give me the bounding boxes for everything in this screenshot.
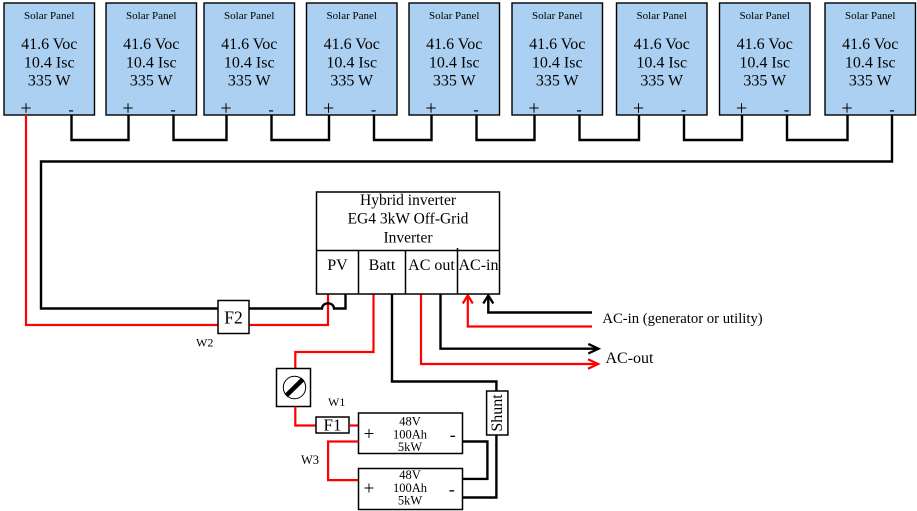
- wire: PV8 minus to PV9 plus: [787, 115, 848, 140]
- svg-text:41.6 Voc: 41.6 Voc: [324, 36, 380, 53]
- svg-text:Solar Panel: Solar Panel: [126, 10, 176, 22]
- svg-text:+: +: [364, 424, 375, 445]
- svg-text:335 W: 335 W: [640, 73, 684, 90]
- svg-text:335 W: 335 W: [28, 73, 72, 90]
- hybrid inverter U1: [317, 192, 500, 294]
- svg-text:+: +: [364, 479, 375, 500]
- solar panel PV1: [4, 3, 95, 120]
- wire: AC out neutral (red) with arrow: [421, 294, 597, 364]
- svg-text:EG4 3kW Off-Grid: EG4 3kW Off-Grid: [348, 211, 469, 228]
- svg-text:Solar Panel: Solar Panel: [327, 10, 377, 22]
- wire: breaker to fuse F1 (red): [295, 407, 316, 426]
- solar panel PV9: [825, 3, 916, 120]
- solar panel PV8: [720, 3, 811, 120]
- svg-text:-: -: [450, 424, 456, 444]
- svg-text:AC-in: AC-in: [459, 257, 499, 274]
- wire: fuse F1 to battery 1 (red): [349, 424, 359, 426]
- svg-text:335 W: 335 W: [536, 73, 580, 90]
- fuse F2: [218, 301, 249, 334]
- shunt: [487, 391, 508, 435]
- wire: PV4 minus to PV5 plus: [374, 115, 432, 140]
- wire: AC out line (black) with arrow: [441, 294, 598, 349]
- svg-text:335 W: 335 W: [330, 73, 374, 90]
- wire: Batt negative (black) inverter to shunt: [392, 294, 496, 391]
- svg-text:Batt: Batt: [369, 257, 396, 274]
- svg-text:Solar Panel: Solar Panel: [532, 10, 582, 22]
- svg-text:10.4 Isc: 10.4 Isc: [24, 54, 75, 71]
- svg-text:Inverter: Inverter: [383, 230, 433, 247]
- solar panel PV4: [307, 3, 398, 120]
- svg-text:F2: F2: [224, 308, 242, 328]
- solar panel PV6: [512, 3, 603, 120]
- wire: shunt to battery 2 - (black): [463, 435, 497, 498]
- svg-text:W3: W3: [301, 453, 319, 467]
- svg-text:Solar Panel: Solar Panel: [637, 10, 687, 22]
- svg-text:335 W: 335 W: [433, 73, 477, 90]
- wire: PV7 minus to PV8 plus: [684, 115, 742, 140]
- svg-text:Solar Panel: Solar Panel: [224, 10, 274, 22]
- battery BT2: [359, 468, 463, 510]
- svg-text:10.4 Isc: 10.4 Isc: [126, 54, 177, 71]
- svg-text:335 W: 335 W: [849, 73, 893, 90]
- svg-text:F1: F1: [324, 416, 342, 435]
- svg-text:PV: PV: [327, 257, 348, 274]
- svg-text:41.6 Voc: 41.6 Voc: [634, 36, 690, 53]
- solar panel PV7: [617, 3, 708, 120]
- svg-text:AC-in (generator or utility): AC-in (generator or utility): [602, 311, 762, 327]
- wire: PV string positive (red) from PV1 + to inverter PV input: [26, 115, 328, 325]
- svg-text:Shunt: Shunt: [489, 394, 506, 432]
- svg-text:Solar Panel: Solar Panel: [845, 10, 895, 22]
- wire: PV3 minus to PV4 plus: [272, 115, 330, 140]
- svg-text:41.6 Voc: 41.6 Voc: [426, 36, 482, 53]
- svg-text:10.4 Isc: 10.4 Isc: [326, 54, 377, 71]
- svg-text:335 W: 335 W: [743, 73, 787, 90]
- breaker CB1: [277, 369, 311, 407]
- svg-text:Solar Panel: Solar Panel: [740, 10, 790, 22]
- svg-text:10.4 Isc: 10.4 Isc: [532, 54, 583, 71]
- svg-text:5kW: 5kW: [398, 440, 423, 454]
- svg-text:10.4 Isc: 10.4 Isc: [224, 54, 275, 71]
- svg-text:41.6 Voc: 41.6 Voc: [221, 36, 277, 53]
- svg-text:-: -: [449, 479, 455, 499]
- battery BT1: [359, 413, 463, 454]
- svg-text:AC-out: AC-out: [606, 350, 655, 367]
- wire: PV string negative (black) from PV9 - to inverter PV input, with hop over red wire: [41, 115, 892, 309]
- solar panel PV2: [106, 3, 197, 120]
- svg-text:10.4 Isc: 10.4 Isc: [636, 54, 687, 71]
- svg-text:W1: W1: [328, 395, 345, 409]
- svg-text:41.6 Voc: 41.6 Voc: [123, 36, 179, 53]
- svg-text:10.4 Isc: 10.4 Isc: [429, 54, 480, 71]
- wire: PV5 minus to PV6 plus: [477, 115, 535, 140]
- fuse F1: [316, 416, 349, 435]
- svg-text:Hybrid inverter: Hybrid inverter: [360, 192, 457, 209]
- wire: Batt positive (red) inverter to breaker: [295, 294, 373, 369]
- solar panel PV3: [204, 3, 295, 120]
- wire: PV6 minus to PV7 plus: [580, 115, 640, 140]
- svg-text:W2: W2: [196, 336, 213, 350]
- svg-text:41.6 Voc: 41.6 Voc: [21, 36, 77, 53]
- svg-text:48V: 48V: [399, 468, 421, 482]
- svg-text:335 W: 335 W: [130, 73, 174, 90]
- wire W3: battery 1 + to battery 2 + (red): [328, 442, 358, 481]
- svg-text:Solar Panel: Solar Panel: [24, 10, 74, 22]
- svg-text:AC out: AC out: [408, 257, 455, 274]
- svg-text:48V: 48V: [399, 414, 421, 428]
- solar panel PV5: [409, 3, 500, 120]
- svg-text:41.6 Voc: 41.6 Voc: [737, 36, 793, 53]
- wire: PV2 minus to PV3 plus: [174, 115, 227, 140]
- wire: AC-in line (black) with up arrow into inverter: [488, 297, 592, 313]
- svg-text:41.6 Voc: 41.6 Voc: [529, 36, 585, 53]
- svg-text:10.4 Isc: 10.4 Isc: [739, 54, 790, 71]
- wire: AC-in neutral (red) with up arrow into inverter: [468, 297, 592, 327]
- wire: battery 1 - to battery 2 - (black): [463, 442, 488, 479]
- svg-text:Solar Panel: Solar Panel: [429, 10, 479, 22]
- wire: PV1 minus to PV2 plus: [72, 115, 129, 140]
- svg-text:41.6 Voc: 41.6 Voc: [842, 36, 898, 53]
- svg-text:5kW: 5kW: [398, 494, 423, 508]
- svg-text:10.4 Isc: 10.4 Isc: [845, 54, 896, 71]
- svg-text:335 W: 335 W: [228, 73, 272, 90]
